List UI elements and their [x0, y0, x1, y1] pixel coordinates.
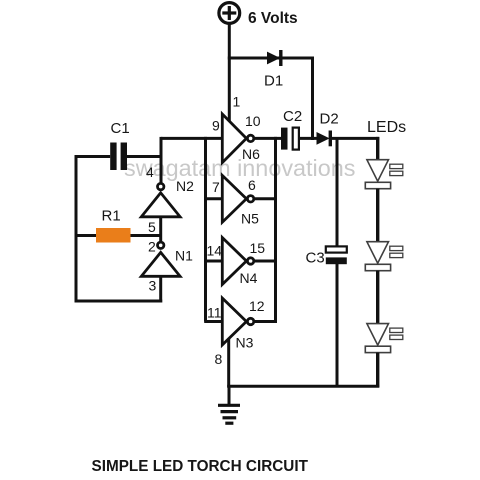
wire C1 left to left rail [75, 155, 111, 158]
wire LED string top segment [376, 137, 379, 161]
diode D2 [317, 131, 330, 147]
wire N2 base to N1 bubble [159, 217, 162, 244]
wire bottom ground rail [227, 385, 379, 388]
svg-text:6: 6 [248, 177, 256, 193]
wire input bus vertical (pins 9,7,14,11) [204, 137, 207, 322]
svg-text:D1: D1 [264, 73, 283, 90]
wire D2 to LED string [330, 137, 379, 140]
wire input stub N4 pin14 [204, 260, 222, 263]
wire N6 input row from C1 node [161, 137, 222, 140]
ground symbol [218, 386, 240, 423]
svg-text:15: 15 [250, 240, 266, 256]
wire output stub N3 pin12 [253, 320, 277, 323]
inverter N4 [222, 238, 254, 285]
wire input stub N3 pin11 [204, 320, 222, 323]
capacitor C2 [281, 128, 299, 150]
wire pin 8 of N3 to ground rail [227, 334, 230, 388]
inverter N5 [222, 175, 254, 222]
LED LED1 [365, 160, 403, 189]
wire D1 branch vertical down to C2/D2 node [311, 57, 314, 141]
LED LED2 [365, 242, 403, 271]
svg-text:N3: N3 [236, 335, 254, 351]
wire LED1 to LED2 [376, 189, 379, 243]
wire battery to pin1 of N6 [228, 23, 231, 126]
svg-text:5: 5 [148, 219, 156, 235]
svg-text:11: 11 [207, 305, 222, 321]
wire D1 top branch horizontal [228, 57, 314, 60]
svg-text:10: 10 [245, 113, 261, 129]
wire N6 output pin10 to C2 [253, 137, 282, 140]
wire R1 to pin5/pin2 junction [131, 234, 163, 237]
wire LED2 to LED3 [376, 271, 379, 325]
wire output stub N5 pin6 [253, 197, 277, 200]
wire left rail to R1 [76, 234, 97, 237]
svg-text:swagatam innovations: swagatam innovations [124, 155, 355, 181]
wire output stub N4 pin15 [253, 260, 277, 263]
svg-text:6 Volts: 6 Volts [248, 10, 298, 27]
wire input stub N5 pin7 [204, 197, 222, 200]
svg-text:14: 14 [207, 243, 223, 259]
inverter N1 [141, 242, 180, 276]
svg-text:1: 1 [233, 94, 241, 110]
svg-text:9: 9 [212, 118, 220, 134]
wire junction vertical C1/pin4 [160, 137, 163, 185]
svg-text:8: 8 [215, 351, 223, 367]
svg-text:N6: N6 [242, 146, 260, 162]
wire bottom left rail [75, 300, 163, 303]
inverter N2 [141, 183, 180, 216]
svg-text:N2: N2 [176, 178, 194, 194]
svg-text:SIMPLE LED TORCH CIRCUIT: SIMPLE LED TORCH CIRCUIT [92, 458, 309, 475]
wire output bus vertical (pins 10,6,15,12) [274, 137, 277, 322]
svg-text:N4: N4 [240, 270, 258, 286]
wire left rail vertical [75, 155, 78, 303]
wire C1 right to junction [127, 155, 163, 158]
diode D1 [268, 50, 281, 66]
capacitor C1 [110, 143, 127, 171]
wire C3 branch upper [336, 138, 339, 246]
svg-text:D2: D2 [320, 111, 339, 128]
svg-text:C1: C1 [111, 120, 130, 137]
svg-text:C3: C3 [306, 250, 325, 267]
svg-text:C2: C2 [283, 108, 302, 125]
wire C2 to D2 [299, 137, 318, 140]
battery B1 6V supply symbol [219, 3, 240, 24]
resistor R1 [96, 228, 131, 243]
svg-text:2: 2 [148, 239, 156, 255]
svg-text:R1: R1 [102, 208, 121, 225]
wire LED3 to bottom rail [376, 353, 379, 388]
svg-text:3: 3 [149, 278, 157, 294]
inverter N6 [222, 114, 254, 163]
svg-text:7: 7 [212, 179, 220, 195]
capacitor C3 [326, 246, 347, 264]
svg-text:LEDs: LEDs [367, 119, 406, 136]
svg-text:12: 12 [249, 298, 265, 314]
svg-text:N1: N1 [175, 248, 193, 264]
svg-text:N5: N5 [241, 211, 259, 227]
wire C3 branch lower [336, 264, 339, 388]
wire N1 base down [159, 276, 162, 302]
inverter N3 [222, 298, 254, 345]
LED LED3 [365, 324, 403, 353]
svg-text:4: 4 [146, 164, 154, 180]
